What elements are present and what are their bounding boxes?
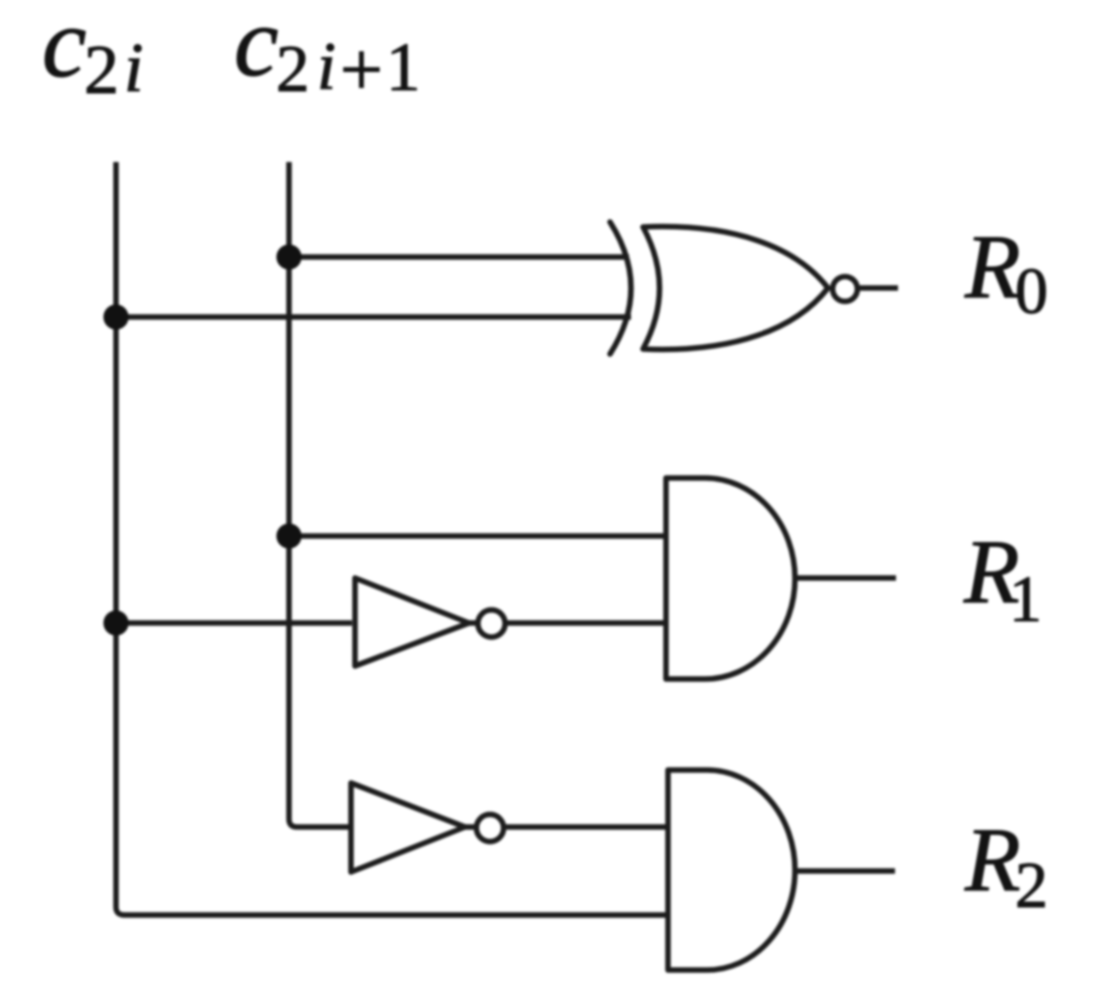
wire: input rail c2i (vertical) with corner to bottom AND U3 lower input [116, 162, 666, 915]
wire: NOT U4 tip to bubble stub [466, 620, 477, 626]
junction node: c2i+1 to AND U2 top input [276, 523, 301, 548]
junction node: c2i+1 to XNOR U1 top input [276, 244, 301, 269]
label c2i+1 [234, 0, 421, 112]
wire: c2i+1 branch to XNOR U1 top input [289, 254, 629, 260]
and gate U2 body [666, 478, 795, 679]
wire: AND U2 output to R1 [795, 575, 896, 581]
wire: c2i branch to XNOR U1 bottom input [116, 314, 631, 320]
svg-text:0: 0 [1015, 255, 1048, 328]
not gate U5 output bubble [476, 814, 503, 841]
wire: XNOR U1 output to R0 [857, 285, 898, 291]
wire: c2i+1 branch to AND U2 top input [289, 533, 666, 539]
not gate U4 output bubble [478, 610, 505, 637]
svg-text:R: R [964, 216, 1021, 317]
svg-text:+: + [340, 28, 383, 112]
svg-text:2: 2 [276, 32, 310, 106]
xnor gate U1 extra input arc [610, 222, 631, 354]
wire: c2i branch to NOT U4 input [116, 620, 352, 626]
wire: NOT U5 tip to bubble stub [462, 824, 475, 830]
wire: input rail c2i+1 (vertical) with corner to NOT U5 input [289, 162, 352, 827]
xnor gate U1 output inversion bubble [833, 277, 858, 302]
svg-text:i: i [124, 30, 143, 107]
wire: NOT U4 output to AND U2 bottom input [505, 620, 666, 626]
svg-text:i: i [317, 28, 336, 104]
not gate U4 triangle [355, 578, 469, 666]
junction node: c2i to NOT U4 input [103, 610, 128, 635]
label R0 [964, 216, 1048, 328]
svg-text:c: c [42, 0, 86, 98]
svg-text:R: R [964, 809, 1021, 910]
wire: NOT U5 output to AND U3 top input [504, 824, 668, 830]
label c2i [42, 0, 143, 109]
xnor gate U1 body [643, 227, 828, 350]
label R1 [963, 521, 1042, 636]
svg-text:2: 2 [1015, 849, 1048, 922]
svg-text:1: 1 [1009, 563, 1042, 636]
svg-text:c: c [234, 0, 278, 97]
and gate U3 body [668, 770, 795, 970]
not gate U5 triangle [351, 783, 465, 872]
junction node: c2i to XNOR U1 bottom input [103, 304, 128, 329]
wire: AND U3 output to R2 [794, 868, 895, 874]
svg-text:1: 1 [386, 29, 421, 105]
svg-text:2: 2 [84, 32, 119, 109]
label R2 [964, 809, 1048, 922]
